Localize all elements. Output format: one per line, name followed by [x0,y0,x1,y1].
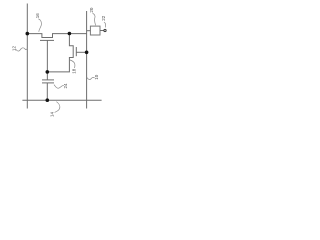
transistor T1 channel [27,34,86,38]
node dot bottom bus [46,98,50,102]
leader for label 20 to box [93,13,96,25]
transistor T1 gate bar [40,39,54,41]
wire T2 gate lead to right bus [76,51,86,53]
svg-text:20: 20 [89,7,94,13]
node dot right bus / T2 gate [85,51,89,55]
leader for label 10 to right bus [87,77,95,79]
transistor T2 channel [47,34,73,72]
svg-text:14: 14 [49,112,54,118]
svg-text:24: 24 [63,83,68,89]
node dot capacitor junction [46,70,50,74]
transistor T2 gate bar [75,47,77,56]
wire bus to box [87,30,91,32]
svg-text:16: 16 [35,13,40,19]
wire data line left vertical bus [26,4,28,109]
wire T1 gate lead down to capacitor [46,40,48,80]
capacitor C1 top plate [42,79,54,81]
svg-text:10: 10 [94,74,99,80]
leader for label 16 to T1 [38,19,41,32]
svg-text:18: 18 [71,68,76,74]
node dot left bus / T1 [26,32,30,36]
terminal circle [104,29,106,31]
leader for label 14 to bottom bus [55,102,60,113]
wire box to terminal [100,30,104,32]
wire power line right vertical bus [86,11,88,109]
node dot T1 wire / T2 top [68,32,72,36]
capacitor C1 bottom plate [42,82,54,84]
svg-text:22: 22 [101,15,106,21]
wire capacitor to bottom bus [46,83,48,100]
svg-text:12: 12 [11,46,16,52]
leader for label 12 to left bus [16,48,27,51]
leader for label 18 to T2 [70,60,75,68]
leader for label 24 to capacitor [54,85,64,89]
box U1 [90,26,100,35]
leader for label 22 to terminal [104,22,106,27]
wire scan line bottom horizontal bus [22,99,101,101]
